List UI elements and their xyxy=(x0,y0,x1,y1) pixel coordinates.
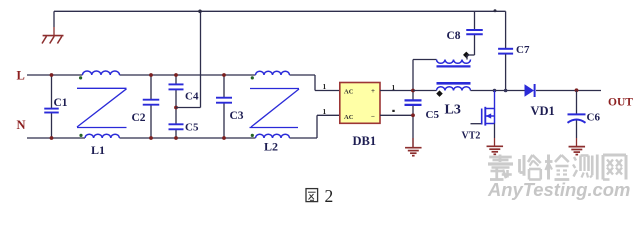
svg-text:AC: AC xyxy=(344,88,354,95)
svg-text:C5: C5 xyxy=(185,122,199,134)
svg-text:1: 1 xyxy=(323,82,327,91)
svg-text:L2: L2 xyxy=(264,140,278,154)
node C2 top xyxy=(149,73,153,77)
svg-text:L: L xyxy=(17,69,25,83)
capacitor C2 xyxy=(150,75,152,99)
ground below VT2 xyxy=(487,145,504,147)
svg-text:VD1: VD1 xyxy=(531,104,555,118)
ground below C5 bulk xyxy=(412,138,414,147)
svg-text:−: − xyxy=(371,113,375,121)
chassis ground xyxy=(43,35,64,37)
wire N line seg3 xyxy=(290,137,318,139)
polarity dot L3 bottom xyxy=(436,90,443,97)
capacitor C4 xyxy=(175,75,177,84)
wire C6 bottom lead xyxy=(576,121,578,139)
capacitor C5 xyxy=(175,108,177,125)
polarity dot L1 bottom xyxy=(79,134,82,137)
wire L line seg1 xyxy=(27,74,83,76)
polarity dot L3 top xyxy=(463,52,470,59)
wire C5 bulk vertical xyxy=(412,60,414,100)
ground below C6 xyxy=(569,146,586,148)
node C4 C5 midpoint xyxy=(174,106,178,110)
svg-text:C1: C1 xyxy=(54,97,68,109)
wire DB1 out bottom xyxy=(380,114,413,116)
wire C7 bottom lead xyxy=(505,54,507,90)
transformer L3 core xyxy=(437,65,471,67)
svg-text:+: + xyxy=(371,87,375,95)
node rail junction xyxy=(198,10,202,14)
wire VD1 cathode to OUT xyxy=(536,90,601,92)
capacitor C1 xyxy=(51,75,53,108)
svg-text:C6: C6 xyxy=(587,112,601,124)
svg-text:C3: C3 xyxy=(230,110,244,122)
svg-text:2: 2 xyxy=(325,186,334,206)
polarity dot L2 top xyxy=(251,76,254,79)
wire L3 primary left lead xyxy=(413,59,437,61)
svg-text:L3: L3 xyxy=(445,103,461,118)
wire L3 top right lead xyxy=(466,55,468,60)
node C3 bottom xyxy=(222,136,226,140)
capacitor C6 xyxy=(568,113,586,115)
capacitor C5 bulk xyxy=(405,99,422,101)
transistor Q VT2 xyxy=(471,123,482,125)
svg-text:C4: C4 xyxy=(185,91,199,103)
wire L line seg2 xyxy=(120,74,256,76)
transformer L3 top winding xyxy=(437,60,471,64)
inductor L1 top winding xyxy=(83,71,120,75)
node C4 top xyxy=(174,73,178,77)
inductor L2 bottom winding xyxy=(256,134,290,138)
svg-text:VT2: VT2 xyxy=(462,130,481,141)
wire switch node xyxy=(413,90,437,92)
polarity dot L1 top xyxy=(79,76,82,79)
inductor L2 top winding xyxy=(256,71,290,75)
node C1 bottom xyxy=(50,136,54,140)
node C5 bottom xyxy=(174,136,178,140)
polarity dot L2 bottom xyxy=(251,134,254,137)
svg-text:AnyTesting.com: AnyTesting.com xyxy=(487,179,630,200)
diode VD1 xyxy=(525,84,535,96)
core slash Z of L2 xyxy=(250,88,299,90)
svg-text:C5: C5 xyxy=(426,109,440,121)
capacitor C3 xyxy=(223,75,225,97)
pin 4 mark bottom-right xyxy=(392,110,394,112)
svg-text:N: N xyxy=(17,118,26,132)
svg-text:L1: L1 xyxy=(91,143,105,157)
transformer L3 bottom winding xyxy=(437,87,471,91)
node C6 junction xyxy=(575,88,579,92)
node DB1 out bottom xyxy=(411,113,415,117)
node C2 bottom xyxy=(149,136,153,140)
caption figure char xyxy=(306,189,318,202)
wire L line seg3 xyxy=(290,74,316,76)
wire L corner to DB1 pin1 xyxy=(314,75,316,91)
wire midpoint to rail xyxy=(176,107,201,109)
wire DB1 out top xyxy=(380,90,413,92)
wire rail left drop xyxy=(53,11,55,27)
wire N line seg2 xyxy=(120,137,256,139)
node C1 top xyxy=(50,73,54,77)
rectifier DB1 body xyxy=(340,83,380,124)
capacitor C8 xyxy=(474,11,476,29)
svg-text:AC: AC xyxy=(344,114,354,121)
svg-text:1: 1 xyxy=(323,107,327,116)
svg-text:C2: C2 xyxy=(132,112,146,124)
svg-text:C8: C8 xyxy=(447,30,461,42)
svg-text:OUT: OUT xyxy=(608,96,633,108)
node C7 junction xyxy=(504,89,508,93)
wire C6 top lead xyxy=(576,91,578,114)
watermark xyxy=(487,155,630,200)
wire rail drop to C7 xyxy=(505,11,507,48)
svg-text:C7: C7 xyxy=(516,44,530,56)
node C3 top xyxy=(222,73,226,77)
node DB1 out top xyxy=(411,89,415,93)
wire VT2 source down xyxy=(494,124,496,139)
node MOSFET drain junction xyxy=(493,89,497,93)
wire N corner to DB1 pin2 xyxy=(316,115,318,138)
node rail stray dot xyxy=(494,9,497,12)
wire N line seg1 xyxy=(27,137,85,139)
svg-text:DB1: DB1 xyxy=(353,134,377,148)
capacitor C7 xyxy=(498,48,513,50)
inductor L1 bottom winding xyxy=(85,134,119,138)
core slash Z of L1 xyxy=(77,87,127,89)
wire top rail xyxy=(54,10,506,12)
